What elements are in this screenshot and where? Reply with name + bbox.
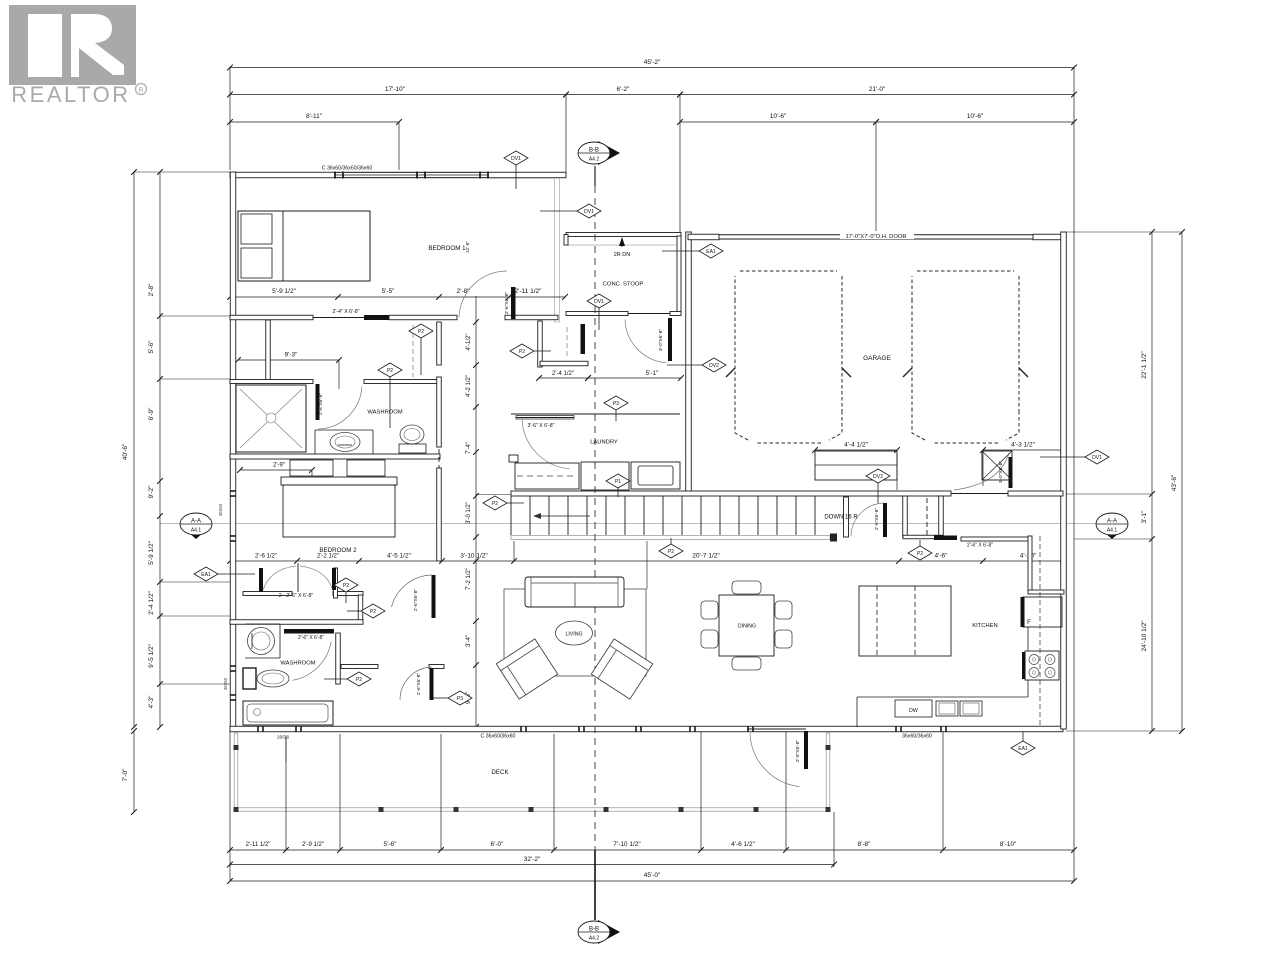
svg-text:P2: P2 xyxy=(343,583,349,589)
svg-text:WASHROOM: WASHROOM xyxy=(280,661,315,667)
svg-text:EA1: EA1 xyxy=(201,572,211,578)
svg-text:DV1: DV1 xyxy=(594,299,604,305)
svg-text:5'-6": 5'-6" xyxy=(148,340,155,354)
svg-text:32'-2": 32'-2" xyxy=(524,856,541,863)
svg-text:A4.2: A4.2 xyxy=(589,936,600,942)
svg-text:DV1: DV1 xyxy=(584,209,594,215)
svg-text:F: F xyxy=(1027,620,1031,626)
svg-text:2'-6"X6'-8": 2'-6"X6'-8" xyxy=(413,589,419,612)
svg-text:36x60/36x60: 36x60/36x60 xyxy=(902,734,932,740)
svg-text:DINING: DINING xyxy=(738,624,756,630)
svg-text:DW: DW xyxy=(909,708,918,714)
svg-text:2'-9": 2'-9" xyxy=(273,463,285,469)
svg-text:5'-9 1/2": 5'-9 1/2" xyxy=(148,540,155,564)
svg-text:2'-6" X 6'-8": 2'-6" X 6'-8" xyxy=(298,635,324,641)
svg-text:KITCHEN: KITCHEN xyxy=(972,623,997,629)
svg-text:LAUNDRY: LAUNDRY xyxy=(590,440,618,446)
svg-text:DV1: DV1 xyxy=(1092,455,1102,461)
svg-text:4'-4 1/2": 4'-4 1/2" xyxy=(844,442,868,449)
svg-text:2'-6"X6'-8": 2'-6"X6'-8" xyxy=(504,292,510,315)
svg-text:4'-6": 4'-6" xyxy=(935,553,949,560)
svg-text:4'-3": 4'-3" xyxy=(148,695,155,709)
svg-text:6'-2": 6'-2" xyxy=(617,86,631,93)
svg-text:5'-1": 5'-1" xyxy=(646,370,660,377)
svg-text:45'-2": 45'-2" xyxy=(644,59,661,66)
svg-text:5'-9 1/2": 5'-9 1/2" xyxy=(272,288,296,295)
svg-text:9'-2": 9'-2" xyxy=(148,485,155,499)
svg-text:36X60: 36X60 xyxy=(218,503,223,516)
svg-text:2'-8": 2'-8" xyxy=(148,283,155,297)
svg-text:40'-6": 40'-6" xyxy=(122,443,129,460)
svg-text:8'-11": 8'-11" xyxy=(306,113,323,120)
svg-text:2'-11 1/2": 2'-11 1/2" xyxy=(515,288,543,295)
svg-text:P2: P2 xyxy=(519,349,525,355)
svg-text:P3: P3 xyxy=(613,401,619,407)
svg-text:7'-0": 7'-0" xyxy=(122,768,129,782)
svg-text:22'-1 1/2": 22'-1 1/2" xyxy=(1141,351,1148,379)
svg-text:REALTOR: REALTOR xyxy=(11,82,130,107)
svg-text:DV2: DV2 xyxy=(709,363,719,369)
svg-text:2'-6"X6'-8": 2'-6"X6'-8" xyxy=(318,393,324,416)
svg-text:7'-10 1/2": 7'-10 1/2" xyxy=(613,841,641,848)
svg-text:6'-9": 6'-9" xyxy=(148,407,155,421)
svg-text:CONC. STOOP: CONC. STOOP xyxy=(603,282,644,288)
svg-text:21'-0": 21'-0" xyxy=(869,86,886,93)
svg-text:3'-4": 3'-4" xyxy=(466,635,472,647)
svg-text:P2: P2 xyxy=(668,549,674,555)
svg-text:P2: P2 xyxy=(370,609,376,615)
svg-text:R: R xyxy=(138,87,143,94)
svg-text:3'-1": 3'-1" xyxy=(1141,510,1148,524)
svg-text:GARAGE: GARAGE xyxy=(863,355,891,362)
svg-text:8'-8": 8'-8" xyxy=(858,841,872,848)
svg-text:2'-6" X 6'-8": 2'-6" X 6'-8" xyxy=(967,543,993,549)
svg-text:8'-10": 8'-10" xyxy=(1000,841,1017,848)
svg-text:B-B: B-B xyxy=(589,927,599,933)
svg-text:2R DN: 2R DN xyxy=(614,252,631,258)
svg-text:C 36x60/36x60: C 36x60/36x60 xyxy=(481,734,516,740)
svg-text:2'-6"X6'-8": 2'-6"X6'-8" xyxy=(416,673,422,696)
svg-text:P2: P2 xyxy=(356,677,362,683)
svg-text:DV1: DV1 xyxy=(511,156,521,162)
svg-text:24'-10 1/2": 24'-10 1/2" xyxy=(1141,620,1148,652)
svg-text:P2: P2 xyxy=(387,368,393,374)
svg-text:DV2: DV2 xyxy=(873,474,883,480)
svg-text:BEDROOM 2: BEDROOM 2 xyxy=(319,547,357,554)
svg-text:4'-2 1/2": 4'-2 1/2" xyxy=(466,375,472,397)
svg-text:5'-5": 5'-5" xyxy=(382,288,396,295)
svg-text:4'-5 1/2": 4'-5 1/2" xyxy=(387,553,411,560)
svg-text:7'-4": 7'-4" xyxy=(466,442,472,454)
svg-text:P2: P2 xyxy=(492,501,498,507)
svg-text:LIVING: LIVING xyxy=(565,632,582,638)
svg-text:45'-0": 45'-0" xyxy=(644,872,661,879)
svg-text:C 36x60/36x60/36x60: C 36x60/36x60/36x60 xyxy=(322,166,373,172)
svg-text:P3: P3 xyxy=(457,696,463,702)
svg-text:A-A: A-A xyxy=(1107,519,1117,525)
svg-text:EA1: EA1 xyxy=(706,249,716,255)
svg-text:3'-0 1/2": 3'-0 1/2" xyxy=(466,502,472,524)
svg-text:2'-6"X6'-8": 2'-6"X6'-8" xyxy=(874,508,880,531)
svg-text:9'-3": 9'-3" xyxy=(285,352,299,359)
svg-text:17'-10": 17'-10" xyxy=(385,86,406,93)
svg-text:P1: P1 xyxy=(615,479,621,485)
svg-text:2'-4 1/2": 2'-4 1/2" xyxy=(552,371,574,377)
svg-text:3'-0"X6'-8": 3'-0"X6'-8" xyxy=(658,329,664,352)
svg-text:36X60: 36X60 xyxy=(223,677,228,690)
svg-text:17'-0"X7'-0"O.H. DOOR: 17'-0"X7'-0"O.H. DOOR xyxy=(845,234,906,240)
svg-text:12'-6": 12'-6" xyxy=(465,241,471,254)
svg-text:4'-6 1/2": 4'-6 1/2" xyxy=(731,841,755,848)
svg-text:2'-4 1/2": 2'-4 1/2" xyxy=(148,590,155,614)
svg-text:DOWN 16 R: DOWN 16 R xyxy=(824,515,858,521)
svg-text:3'-10 1/2": 3'-10 1/2" xyxy=(460,553,488,560)
svg-text:2'-8": 2'-8" xyxy=(457,288,471,295)
svg-text:2'-11 1/2": 2'-11 1/2" xyxy=(246,842,271,848)
svg-text:EA1: EA1 xyxy=(1018,746,1028,752)
svg-text:BEDROOM 1: BEDROOM 1 xyxy=(428,245,466,252)
svg-text:P2: P2 xyxy=(418,329,424,335)
svg-text:4'-3 1/2": 4'-3 1/2" xyxy=(1011,442,1035,449)
svg-text:2'-4" X 6'-8": 2'-4" X 6'-8" xyxy=(332,309,359,315)
svg-text:20'-7 1/2": 20'-7 1/2" xyxy=(692,553,720,560)
svg-text:B-B: B-B xyxy=(589,148,599,154)
svg-text:2'-6 1/2": 2'-6 1/2" xyxy=(255,554,277,560)
svg-text:P2: P2 xyxy=(917,551,923,557)
svg-text:4'-1/2": 4'-1/2" xyxy=(466,334,472,351)
svg-text:6'-0": 6'-0" xyxy=(491,841,505,848)
svg-text:20/36: 20/36 xyxy=(277,735,289,741)
svg-text:9'-5 1/2": 9'-5 1/2" xyxy=(148,643,155,667)
svg-text:A-A: A-A xyxy=(191,519,201,525)
svg-text:10'-6": 10'-6" xyxy=(967,113,984,120)
svg-text:43'-6": 43'-6" xyxy=(1171,474,1178,491)
svg-text:2'-8"X6'-8": 2'-8"X6'-8" xyxy=(795,740,801,763)
svg-text:A4.2: A4.2 xyxy=(589,157,600,163)
svg-text:2 - 2'-6" X 6'-8": 2 - 2'-6" X 6'-8" xyxy=(279,593,314,599)
svg-text:7'-2 1/2": 7'-2 1/2" xyxy=(466,568,472,590)
svg-text:DECK: DECK xyxy=(491,769,509,776)
svg-text:5'-6": 5'-6" xyxy=(384,841,398,848)
svg-text:A4.1: A4.1 xyxy=(1107,528,1118,534)
svg-text:WASHROOM: WASHROOM xyxy=(367,410,402,416)
svg-text:2'-9 1/2": 2'-9 1/2" xyxy=(302,842,324,848)
svg-text:A4.1: A4.1 xyxy=(191,528,202,534)
svg-text:3'-6" X 6'-8": 3'-6" X 6'-8" xyxy=(527,423,554,429)
svg-text:10'-6": 10'-6" xyxy=(770,113,787,120)
svg-text:2'-2 1/2": 2'-2 1/2" xyxy=(317,554,339,560)
